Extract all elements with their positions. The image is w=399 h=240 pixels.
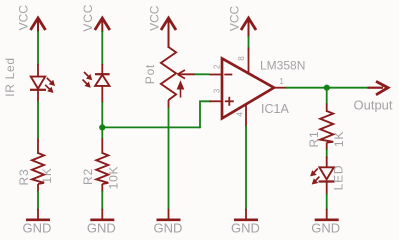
ground GND3 (157, 209, 181, 220)
power VCC 2 (95, 18, 110, 32)
wire LED2 to GND5 (326, 194, 328, 211)
power VCC 1 (31, 18, 46, 32)
svg-text:GND: GND (87, 221, 116, 236)
power VCC 4 (241, 18, 256, 37)
wire VCC3 to Pot (hidden under symbol stub) (168, 44, 170, 48)
wire VCC4 to pin8 (248, 36, 250, 49)
op-amp U1 IC1A (210, 48, 288, 127)
power VCC 3 (161, 18, 176, 48)
wire VCC1 to LED1 (37, 31, 39, 65)
resistor R3 (32, 139, 44, 193)
junction node B (324, 85, 330, 91)
resistor R1 (320, 104, 333, 151)
wire node B down to R1 (326, 88, 328, 105)
wire R3 to GND1 (37, 191, 39, 210)
ground GND4 (234, 209, 258, 220)
wire R2 to GND2 (101, 191, 103, 210)
svg-text:VCC: VCC (227, 6, 241, 32)
svg-text:1K: 1K (332, 131, 346, 147)
svg-text:VCC: VCC (147, 5, 161, 31)
svg-text:LED: LED (332, 165, 346, 191)
svg-text:2: 2 (212, 64, 221, 69)
svg-text:VCC: VCC (81, 4, 95, 32)
svg-text:R1: R1 (307, 131, 321, 148)
wire D2 to node A to R2 (101, 102, 103, 139)
svg-text:8: 8 (237, 56, 246, 61)
wire VCC2 to D2 (101, 31, 103, 65)
ground GND2 (90, 209, 114, 220)
LED D1 (IR Led) (30, 64, 54, 102)
ground GND5 (315, 209, 339, 220)
potentiometer Pot (161, 47, 195, 109)
wire pin4 to GND4 (245, 126, 247, 211)
wire LED1 to R3 (37, 101, 39, 139)
svg-text:1: 1 (279, 77, 284, 86)
output port arrow (368, 81, 389, 94)
wire node A to riser (102, 126, 200, 128)
svg-text:IC1A: IC1A (261, 102, 289, 116)
svg-text:VCC: VCC (17, 5, 31, 31)
ground GND1 (26, 209, 50, 220)
svg-text:4: 4 (236, 112, 245, 117)
svg-text:3: 3 (212, 88, 221, 93)
svg-text:R3: R3 (17, 169, 31, 186)
svg-text:GND: GND (311, 221, 340, 236)
svg-text:Pot: Pot (143, 64, 157, 84)
wire output net (286, 87, 369, 89)
svg-text:Output: Output (354, 98, 393, 113)
svg-text:R2: R2 (81, 168, 95, 185)
resistor R2 (96, 139, 108, 193)
wire Pot wiper to pin2 (195, 73, 210, 75)
svg-text:10K: 10K (106, 166, 120, 190)
svg-text:GND: GND (154, 221, 183, 236)
svg-text:LM358N: LM358N (260, 59, 305, 73)
wire R1 to LED2 (326, 149, 328, 158)
LED D3 (LED) (311, 157, 335, 195)
wire Pot bottom to GND3 (168, 108, 170, 211)
wire riser to pin3 (200, 101, 211, 128)
svg-text:GND: GND (231, 221, 260, 236)
photodiode D2 (83, 64, 110, 103)
junction node A (99, 124, 105, 130)
svg-text:IR Led: IR Led (3, 57, 17, 97)
svg-text:GND: GND (23, 221, 52, 236)
